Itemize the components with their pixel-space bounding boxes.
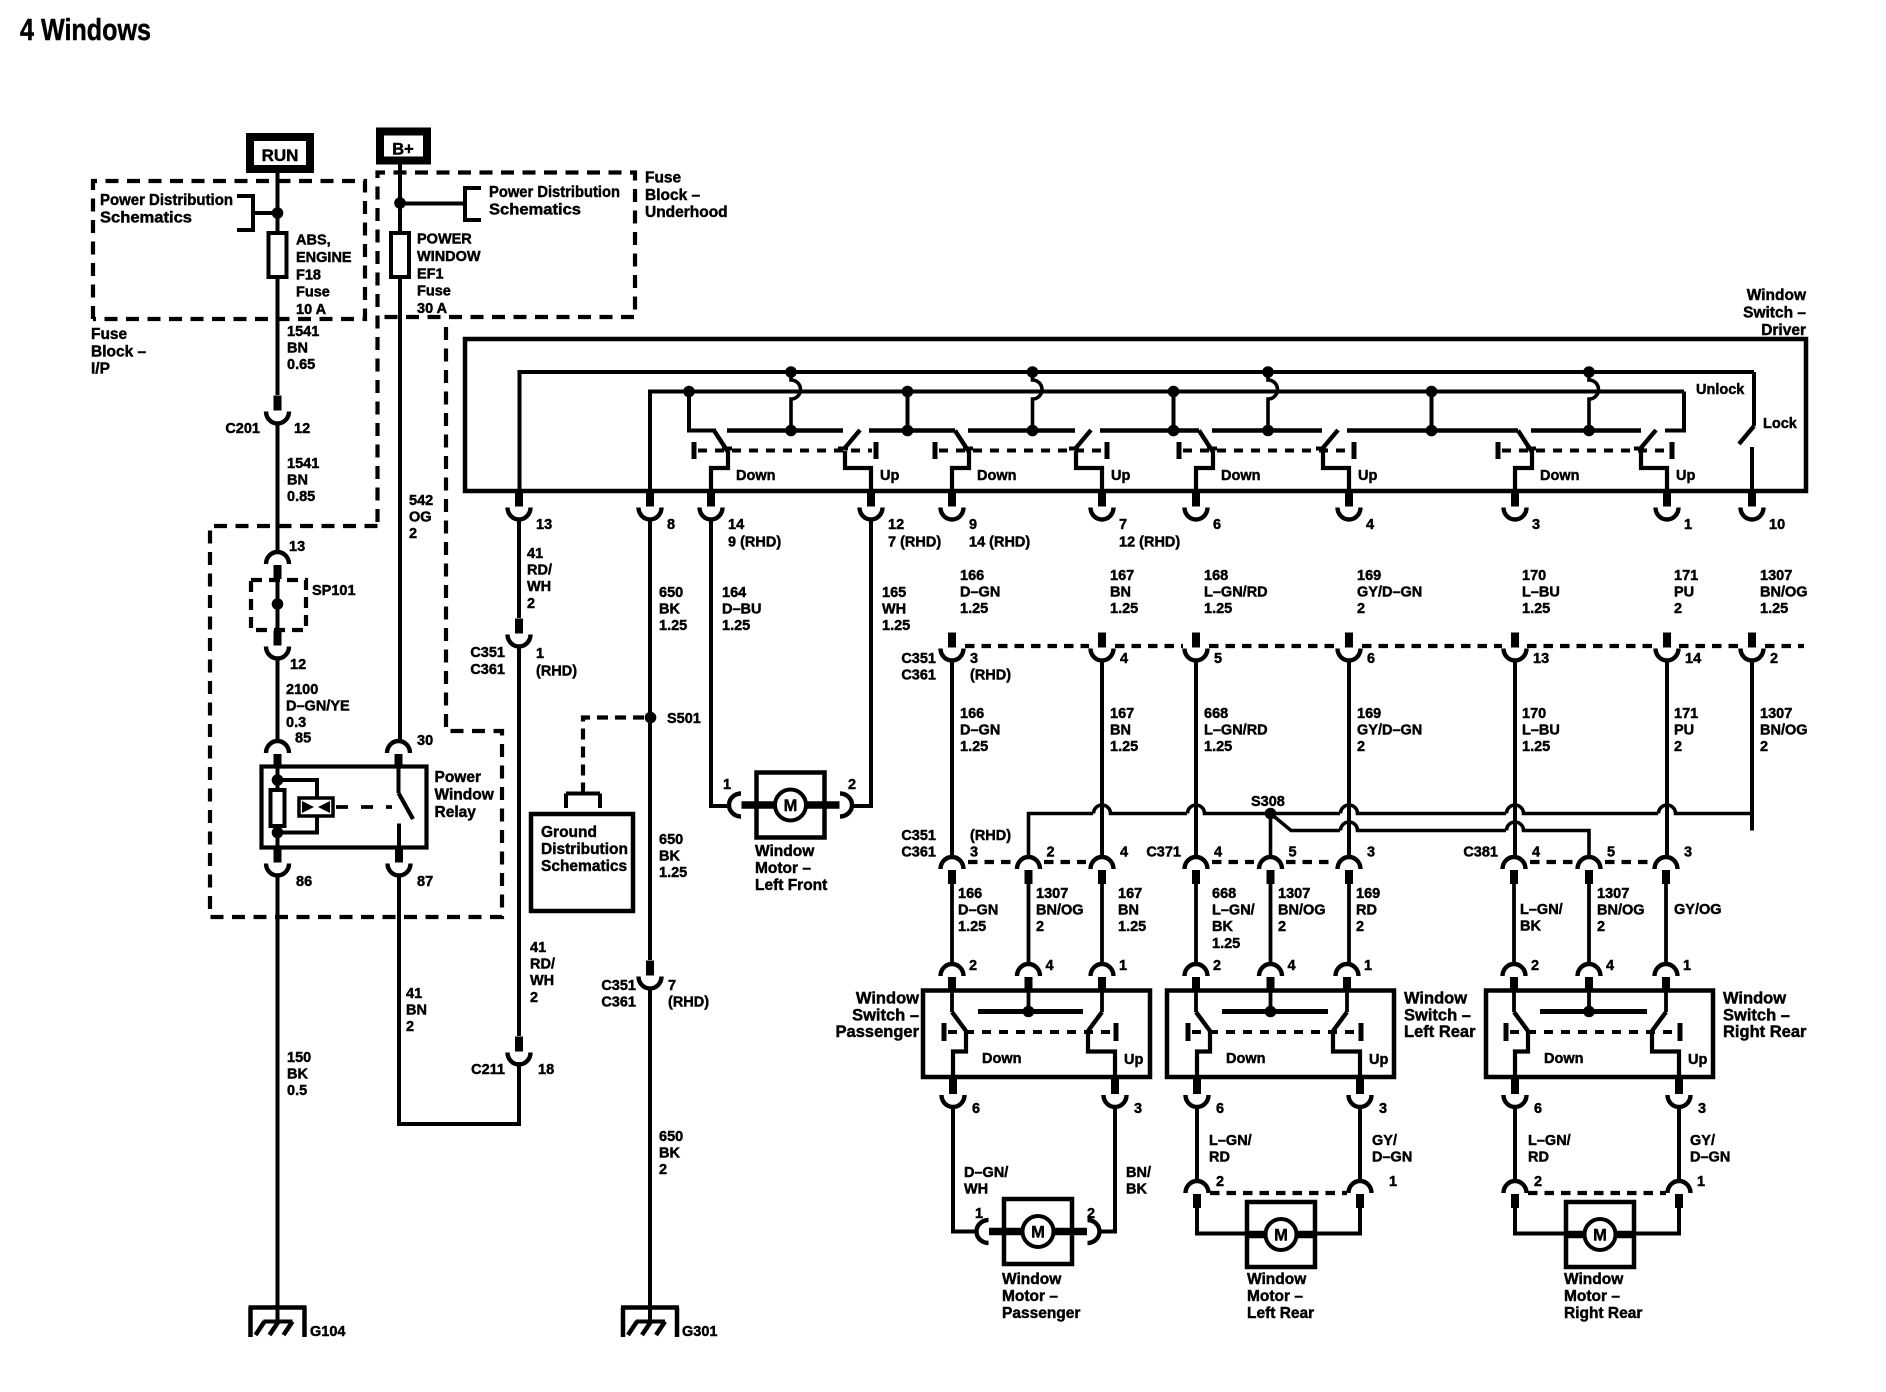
svg-text:41: 41 <box>406 986 422 1002</box>
svg-text:Left Rear: Left Rear <box>1247 1305 1314 1322</box>
svg-text:WINDOW: WINDOW <box>417 249 481 265</box>
driver box pin 9 <box>941 492 1031 551</box>
svg-text:OG: OG <box>409 510 432 526</box>
wire 166 D–GN (row1 to row3) at x=952 <box>952 659 1000 857</box>
svg-text:Up: Up <box>1369 1052 1388 1068</box>
driver box pin 8 <box>639 492 676 534</box>
connector C351/C361 pin 2 <box>1741 633 1779 668</box>
svg-text:M: M <box>1593 1227 1607 1245</box>
dashed box around power window relay circuit <box>210 320 502 917</box>
svg-text:S308: S308 <box>1251 794 1285 810</box>
svg-text:WH: WH <box>527 579 551 595</box>
svg-text:C361: C361 <box>901 668 936 684</box>
svg-text:WH: WH <box>964 1182 988 1198</box>
switch Down (box 1167) <box>1196 991 1265 1080</box>
svg-text:C211: C211 <box>471 1062 505 1078</box>
switch common bar at x=1486 <box>1540 991 1647 1018</box>
svg-text:Window: Window <box>435 786 495 803</box>
svg-text:2: 2 <box>527 596 535 612</box>
svg-text:6: 6 <box>1367 651 1375 667</box>
svg-text:2: 2 <box>1216 1174 1224 1190</box>
wire label 168 L–GN/RD 1.25 (above C351 row) <box>1204 568 1268 617</box>
svg-text:Down: Down <box>1540 468 1579 484</box>
mechanical link (driver pair 1) <box>694 442 876 459</box>
svg-text:2: 2 <box>1213 958 1221 974</box>
label: Fuse Block - I/P <box>91 326 147 378</box>
svg-text:1: 1 <box>1389 1174 1397 1190</box>
driver box pin 1 <box>1656 492 1693 534</box>
svg-text:SP101: SP101 <box>312 583 356 599</box>
connector C201 pin 12 <box>225 396 310 438</box>
wire: switch contact bar 869-955 <box>869 428 955 433</box>
svg-text:8: 8 <box>667 517 675 533</box>
svg-text:C351: C351 <box>901 651 936 667</box>
wire 2100 D-GN/YE 0.3 (SP101 to relay pin 85) <box>278 657 350 742</box>
wire 668 L–GN/RD (row1 to row3) at x=1196 <box>1196 659 1268 857</box>
svg-text:Switch –: Switch – <box>1743 304 1806 321</box>
connector C351/C361 pin 6 <box>1338 633 1376 668</box>
dashed link S501 to ground distribution <box>566 718 644 809</box>
wire: bus1 tap with hop over bus2 at x=1268 <box>1262 366 1277 436</box>
svg-text:1307: 1307 <box>1278 886 1310 902</box>
svg-text:41: 41 <box>527 546 543 562</box>
driver box pin 3 <box>1504 492 1541 534</box>
svg-text:1.25: 1.25 <box>1118 919 1146 935</box>
svg-text:RD: RD <box>1356 903 1377 919</box>
connector into SP101, pin 13 <box>266 539 305 579</box>
svg-text:Schematics: Schematics <box>100 210 192 227</box>
node: junction dot RUN wire to schematic bracket <box>272 207 284 219</box>
svg-text:Lock: Lock <box>1763 416 1798 432</box>
svg-text:ENGINE: ENGINE <box>296 250 352 266</box>
svg-text:1.25: 1.25 <box>1110 739 1138 755</box>
svg-text:1: 1 <box>723 777 731 793</box>
svg-text:Unlock: Unlock <box>1696 382 1745 398</box>
svg-text:Block –: Block – <box>91 343 147 360</box>
wire to motor (right rear left) <box>1515 1208 1566 1234</box>
svg-text:Switch –: Switch – <box>1404 1006 1471 1024</box>
connector C351/C361 pin 14 <box>1656 633 1702 668</box>
svg-text:3: 3 <box>1367 845 1375 861</box>
label: POWER WINDOW EF1 Fuse 30 A <box>417 232 481 318</box>
switch Up (driver pair 1) <box>838 430 899 491</box>
svg-text:BN: BN <box>1110 585 1131 601</box>
svg-text:2: 2 <box>1534 1174 1542 1190</box>
wire L-GN/RD (right rear pin 6 to motor connector) <box>1515 1106 1571 1190</box>
svg-text:Window: Window <box>1723 990 1786 1008</box>
switch Up (box 1167) <box>1333 991 1388 1080</box>
mechanical link (box 1486) <box>1506 1023 1680 1041</box>
connector row3 pin 3 at x=1349 <box>1338 845 1376 885</box>
connector C211 pin 18 <box>471 1037 554 1079</box>
svg-text:RD: RD <box>1209 1150 1230 1166</box>
wire 1307 BN/OG 2 (row3 to switch) at x=1028.5 <box>1029 884 1084 964</box>
connector row3 pin 2 at x=1028.5 <box>1017 845 1055 885</box>
dashed box: Fuse Block - I/P <box>93 181 365 319</box>
svg-text:170: 170 <box>1522 568 1546 584</box>
svg-text:C381: C381 <box>1463 845 1498 861</box>
svg-text:1: 1 <box>1364 958 1372 974</box>
window switch box at x=923 <box>923 991 1150 1078</box>
switch box pin 3 at x=923 <box>1104 1079 1143 1117</box>
svg-text:166: 166 <box>960 706 984 722</box>
wire to motor (left rear left) <box>1197 1208 1247 1234</box>
svg-text:1.25: 1.25 <box>722 618 750 634</box>
svg-text:Up: Up <box>1111 468 1130 484</box>
wire: bus1 tap with hop over bus2 at x=791 <box>785 366 800 436</box>
svg-text:L–GN/: L–GN/ <box>1212 903 1255 919</box>
svg-text:7: 7 <box>668 978 676 994</box>
svg-text:166: 166 <box>960 568 984 584</box>
svg-text:BN/OG: BN/OG <box>1597 903 1645 919</box>
svg-text:Distribution: Distribution <box>541 841 628 858</box>
svg-text:0.3: 0.3 <box>286 715 306 731</box>
wire label 166 D–GN 1.25 (above C351 row) <box>960 568 1000 617</box>
svg-text:1.25: 1.25 <box>958 919 986 935</box>
svg-text:1307: 1307 <box>1760 706 1792 722</box>
svg-text:14: 14 <box>1685 651 1701 667</box>
svg-text:L–BU: L–BU <box>1522 723 1560 739</box>
svg-text:(RHD): (RHD) <box>970 668 1011 684</box>
mechanical link (box 923) <box>944 1023 1116 1041</box>
switch box pin 6 at x=1486 <box>1504 1079 1543 1117</box>
svg-text:GY/D–GN: GY/D–GN <box>1357 585 1422 601</box>
svg-text:1: 1 <box>1683 958 1691 974</box>
connector C351/C361 pin 3 <box>941 633 1012 684</box>
reference bracket: Power Distribution Schematics (left) <box>100 192 272 230</box>
svg-text:668: 668 <box>1212 886 1236 902</box>
switch Down (box 923) <box>952 991 1021 1080</box>
svg-text:13: 13 <box>1533 651 1549 667</box>
power symbol RUN box <box>250 137 310 169</box>
driver box pin 13 <box>508 492 553 534</box>
switch box pin 1 at x=1347 <box>1336 958 1373 991</box>
svg-text:0.65: 0.65 <box>287 357 315 373</box>
svg-text:Motor –: Motor – <box>1002 1288 1058 1305</box>
svg-text:GY/: GY/ <box>1372 1133 1397 1149</box>
svg-text:668: 668 <box>1204 706 1228 722</box>
svg-text:Window: Window <box>1247 1271 1307 1288</box>
svg-text:2: 2 <box>848 777 856 793</box>
connector row3 pin 4 at x=1102 <box>1091 845 1129 885</box>
svg-text:5: 5 <box>1214 651 1222 667</box>
label: Window Switch - Driver <box>1743 287 1807 339</box>
wire label 167 BN 1.25 (above C351 row) <box>1110 568 1138 617</box>
relay coil <box>271 767 285 848</box>
wire: bus2 right corner to last Up contact <box>1665 392 1684 431</box>
svg-text:1.25: 1.25 <box>1760 601 1788 617</box>
label: Window Switch – Right Rear <box>1723 990 1807 1042</box>
svg-text:86: 86 <box>296 874 312 890</box>
svg-text:2: 2 <box>1278 919 1286 935</box>
wire RUN to fuse F18 <box>276 172 280 233</box>
svg-text:PU: PU <box>1674 723 1694 739</box>
wire B+ to fuse EF1 <box>398 161 402 233</box>
svg-text:1307: 1307 <box>1036 886 1068 902</box>
svg-text:Up: Up <box>1688 1052 1707 1068</box>
svg-text:1.25: 1.25 <box>1212 936 1240 952</box>
svg-text:1.25: 1.25 <box>1110 601 1138 617</box>
svg-text:3: 3 <box>1532 517 1540 533</box>
wire GY/D-GN (right rear pin 3 to motor connector) <box>1679 1106 1730 1190</box>
wire 166 D–GN 1.25 (row3 to switch) at x=952 <box>952 884 998 964</box>
wire 150 BK 0.5 (relay 86 to G104) <box>278 874 312 1322</box>
svg-text:D–GN: D–GN <box>960 585 1000 601</box>
svg-text:3: 3 <box>1134 1101 1142 1117</box>
wire 1307 BN/OG 2 (row3 to switch) at x=1270.5 <box>1271 884 1326 964</box>
svg-text:14 (RHD): 14 (RHD) <box>969 535 1030 551</box>
svg-text:Schematics: Schematics <box>489 202 581 219</box>
wire 167 BN (row1 to row3) at x=1102 <box>1102 659 1138 857</box>
relay pin 87 <box>388 848 434 891</box>
wire: bus2 tap at x=1431.5 <box>1426 386 1438 437</box>
svg-text:150: 150 <box>287 1050 311 1066</box>
svg-text:BN: BN <box>1110 723 1131 739</box>
switch box pin 2 at x=1514 <box>1503 958 1540 991</box>
svg-text:D–GN/YE: D–GN/YE <box>286 699 350 715</box>
svg-text:BN: BN <box>1118 903 1139 919</box>
splice SP101 <box>251 580 356 630</box>
svg-text:ABS,: ABS, <box>296 233 331 249</box>
svg-text:2: 2 <box>969 958 977 974</box>
connector row3 at x=952 <box>941 857 964 884</box>
wire 1307 BN/OG 2 (row3 to switch) at x=1589 <box>1589 884 1645 964</box>
svg-text:Switch –: Switch – <box>852 1006 919 1024</box>
svg-text:12 (RHD): 12 (RHD) <box>1119 535 1180 551</box>
svg-text:1541: 1541 <box>287 324 319 340</box>
wire: switch contact bar 727-843 <box>727 428 843 433</box>
svg-text:C361: C361 <box>901 845 936 861</box>
wire 650 BK 2 (C351 to G301) <box>650 987 683 1322</box>
svg-text:542: 542 <box>409 493 433 509</box>
wire: bus1 tap with hop over bus2 at x=1589 <box>1583 366 1598 436</box>
svg-text:2: 2 <box>1770 651 1778 667</box>
driver box pin 6 <box>1185 492 1222 534</box>
svg-text:BK: BK <box>659 849 680 865</box>
svg-text:165: 165 <box>882 585 906 601</box>
svg-text:1.25: 1.25 <box>1204 601 1232 617</box>
svg-text:Up: Up <box>1358 468 1377 484</box>
svg-text:C361: C361 <box>601 995 636 1011</box>
wire 542 OG 2 (fuse EF1 to relay pin 30) <box>400 277 433 741</box>
svg-text:167: 167 <box>1110 706 1134 722</box>
node: relay coil bottom junction <box>272 827 284 839</box>
svg-text:Passenger: Passenger <box>1002 1305 1080 1322</box>
svg-text:RD/: RD/ <box>530 957 555 973</box>
svg-text:G301: G301 <box>682 1324 717 1340</box>
wire 167 BN 1.25 (row3 to switch) at x=1102 <box>1102 884 1146 964</box>
svg-text:Up: Up <box>1676 468 1695 484</box>
connector out of SP101, pin 12 <box>266 631 306 674</box>
svg-text:2: 2 <box>530 990 538 1006</box>
svg-text:L–BU: L–BU <box>1522 585 1560 601</box>
svg-text:1.25: 1.25 <box>659 618 687 634</box>
svg-text:G104: G104 <box>310 1324 345 1340</box>
mechanical link (driver pair 3) <box>1179 442 1354 459</box>
wire: bus2 tap at x=1173.5 <box>1168 386 1180 437</box>
label C351/C361 (row 3) <box>901 828 936 861</box>
dashed box: Fuse Block - Underhood <box>378 173 636 523</box>
svg-text:RD: RD <box>1528 1150 1549 1166</box>
svg-text:Fuse: Fuse <box>296 285 330 301</box>
svg-text:5: 5 <box>1289 845 1297 861</box>
svg-text:Underhood: Underhood <box>645 204 728 221</box>
wire 1307 BN/OG distribution (upper, S308 line) <box>1029 805 1753 857</box>
svg-text:4: 4 <box>1214 845 1222 861</box>
svg-text:WH: WH <box>530 973 554 989</box>
wire: switch contact bar 968-1075 <box>968 428 1075 433</box>
svg-text:6: 6 <box>1213 517 1221 533</box>
wire 165 WH 1.25 (pin 12 to motor LF) <box>851 518 910 806</box>
svg-text:D–GN: D–GN <box>1690 1150 1730 1166</box>
svg-text:Window: Window <box>1002 1271 1062 1288</box>
svg-text:Left Front: Left Front <box>755 877 827 894</box>
fuse EF1 (POWER WINDOW, 30 A) <box>391 233 409 277</box>
svg-text:169: 169 <box>1357 568 1381 584</box>
power window relay box <box>262 767 427 848</box>
wire to motor (left rear right) <box>1315 1208 1360 1234</box>
svg-text:BK: BK <box>1126 1182 1147 1198</box>
svg-text:3: 3 <box>1379 1101 1387 1117</box>
svg-text:Power Distribution: Power Distribution <box>100 192 233 209</box>
connector C351/C361 pin 4 <box>1091 633 1129 668</box>
wire L–GN/ BK (row3 to switch) at x=1514 <box>1514 884 1563 964</box>
wire 668 L–GN/ BK 1.25 (row3 to switch) at x=1196 <box>1196 884 1255 964</box>
label: Window Switch – Passenger <box>836 990 920 1042</box>
motor connector left (right rear) <box>1504 1181 1527 1208</box>
svg-text:12: 12 <box>290 657 306 673</box>
svg-text:2: 2 <box>1357 601 1365 617</box>
svg-text:Fuse: Fuse <box>417 284 451 300</box>
switch Down (driver pair 4) <box>1515 431 1579 492</box>
svg-text:Up: Up <box>880 468 899 484</box>
svg-text:1: 1 <box>1119 958 1127 974</box>
wire 650 BK 1.25 (pin 8 to S501) <box>650 518 687 717</box>
svg-text:L–GN/RD: L–GN/RD <box>1204 585 1268 601</box>
relay actuator (bowtie) symbol <box>299 798 392 816</box>
svg-text:1.25: 1.25 <box>960 739 988 755</box>
wire 41 BN 2 (relay 87 to C211) <box>399 874 519 1124</box>
svg-text:BN/: BN/ <box>1126 1165 1151 1181</box>
svg-text:1307: 1307 <box>1597 886 1629 902</box>
svg-text:Power: Power <box>435 769 482 786</box>
bus wire from pin 8 inside driver box <box>650 392 1684 490</box>
svg-text:171: 171 <box>1674 568 1698 584</box>
svg-text:650: 650 <box>659 1129 683 1145</box>
window switch box at x=1486 <box>1486 991 1713 1078</box>
driver box pin 14 <box>700 492 782 551</box>
connector row3 pin 4 at x=1196 <box>1185 845 1223 885</box>
svg-text:12: 12 <box>294 421 310 437</box>
svg-text:1.25: 1.25 <box>659 865 687 881</box>
svg-text:BN: BN <box>406 1003 427 1019</box>
svg-text:164: 164 <box>722 585 746 601</box>
splice S501 <box>645 711 701 727</box>
wire label 170 L–BU 1.25 (above C351 row) <box>1522 568 1560 617</box>
wire: switch contact bar 1347-1518 <box>1347 428 1518 433</box>
svg-text:Schematics: Schematics <box>541 858 627 875</box>
svg-text:Window: Window <box>1747 287 1807 304</box>
svg-text:Window: Window <box>1404 990 1467 1008</box>
svg-text:D–GN: D–GN <box>960 723 1000 739</box>
window motor - right rear <box>1564 1202 1642 1322</box>
svg-text:Down: Down <box>982 1051 1021 1067</box>
svg-text:169: 169 <box>1357 706 1381 722</box>
svg-text:Right Rear: Right Rear <box>1723 1023 1807 1041</box>
svg-text:2: 2 <box>1357 739 1365 755</box>
mechanical link (driver pair 2) <box>935 442 1107 459</box>
svg-text:5: 5 <box>1607 845 1615 861</box>
svg-text:L–GN/: L–GN/ <box>1209 1133 1252 1149</box>
svg-text:6: 6 <box>1216 1101 1224 1117</box>
svg-text:Power Distribution: Power Distribution <box>489 184 620 201</box>
switch Down (driver pair 1) <box>711 431 775 492</box>
svg-text:10: 10 <box>1769 517 1785 533</box>
svg-text:POWER: POWER <box>417 232 472 248</box>
label C371 <box>1146 845 1181 861</box>
wire GY/D-GN (left rear pin 3 to motor connector) <box>1360 1106 1412 1190</box>
svg-text:Right Rear: Right Rear <box>1564 1305 1642 1322</box>
window motor - left front <box>723 773 856 895</box>
label (RHD) 3 (row 3) <box>970 828 1011 861</box>
wire: bus2 tap to Down contact (pair 1) <box>683 386 716 431</box>
window switch driver box <box>465 339 1806 491</box>
svg-text:Fuse: Fuse <box>91 326 128 343</box>
svg-text:Window: Window <box>856 990 919 1008</box>
splice S308 <box>1251 794 1285 819</box>
node: junction dot B+ wire to schematic bracket <box>394 197 406 209</box>
svg-text:Switch –: Switch – <box>1723 1006 1790 1024</box>
switch Down (driver pair 3) <box>1196 431 1260 492</box>
svg-text:RUN: RUN <box>262 146 299 165</box>
svg-text:3: 3 <box>970 845 978 861</box>
svg-text:BK: BK <box>659 1146 680 1162</box>
svg-text:6: 6 <box>972 1101 980 1117</box>
switch Up (driver pair 4) <box>1634 430 1695 491</box>
wire GY/OG (row3 to switch) at x=1666 <box>1666 884 1722 964</box>
svg-text:3: 3 <box>970 651 978 667</box>
switch Up (driver pair 2) <box>1069 430 1130 491</box>
svg-text:14: 14 <box>728 517 744 533</box>
svg-text:2: 2 <box>1674 739 1682 755</box>
switch Up (box 923) <box>1088 991 1143 1080</box>
svg-text:1: 1 <box>536 646 544 662</box>
svg-text:Relay: Relay <box>435 804 477 821</box>
svg-text:2: 2 <box>409 526 417 542</box>
svg-text:2: 2 <box>659 1162 667 1178</box>
svg-text:BK: BK <box>287 1067 308 1083</box>
switch Lock/Unlock (driver) <box>1696 372 1798 491</box>
svg-text:4: 4 <box>1288 958 1296 974</box>
label: Fuse Block - Underhood <box>645 170 728 222</box>
driver box pin 4 <box>1338 492 1375 534</box>
svg-text:BN: BN <box>287 473 308 489</box>
svg-text:Window: Window <box>1564 1271 1624 1288</box>
svg-text:BK: BK <box>659 602 680 618</box>
label C351/C361 (row 1) <box>901 651 936 684</box>
svg-text:85: 85 <box>295 731 311 747</box>
switch box pin 4 at x=1028.5 <box>1017 958 1054 991</box>
label: Window Switch – Left Rear <box>1404 990 1476 1042</box>
svg-text:I/P: I/P <box>91 361 110 378</box>
svg-text:1.25: 1.25 <box>882 618 910 634</box>
svg-text:BN: BN <box>287 341 308 357</box>
svg-text:C371: C371 <box>1146 845 1181 861</box>
svg-text:7: 7 <box>1119 517 1127 533</box>
wire 164 D-BU 1.25 (pin 14 to motor LF) <box>711 518 761 806</box>
svg-text:Driver: Driver <box>1761 322 1806 339</box>
svg-text:C351: C351 <box>601 978 636 994</box>
